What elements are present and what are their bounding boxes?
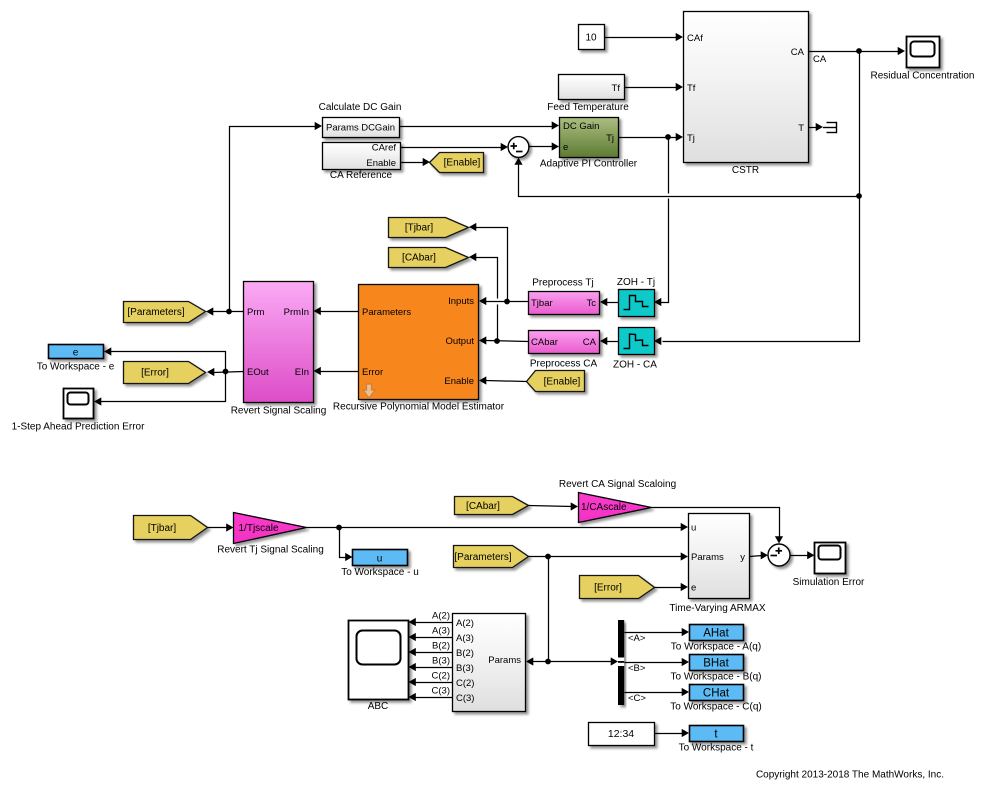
goto tag [CAbar] (upper) bbox=[389, 248, 469, 268]
from tag [CAbar] (lower) bbox=[455, 497, 529, 515]
block ZOH - CA bbox=[619, 328, 655, 355]
wire: CAref -> Sum1 bbox=[401, 147, 504, 149]
to-workspace block BHat bbox=[690, 655, 744, 671]
gain 1/CAscale (Revert CA Signal Scaloing) bbox=[579, 493, 652, 523]
goto tag [Parameters] (upper) bbox=[124, 302, 206, 323]
svg-text:B(3): B(3) bbox=[456, 663, 474, 674]
svg-text:[CAbar]: [CAbar] bbox=[402, 253, 436, 264]
svg-text:Prm: Prm bbox=[247, 307, 265, 318]
svg-text:Revert Signal Scaling: Revert Signal Scaling bbox=[231, 406, 327, 417]
svg-text:BHat: BHat bbox=[703, 658, 729, 670]
svg-text:Tf: Tf bbox=[612, 83, 621, 94]
svg-text:CA: CA bbox=[791, 47, 805, 58]
constant block "10" bbox=[579, 25, 605, 50]
svg-text:C(3): C(3) bbox=[432, 686, 450, 697]
svg-text:Output: Output bbox=[445, 336, 474, 347]
to-workspace block e bbox=[49, 345, 104, 359]
wire: CA vertical feedback down right side to ZOH - CA bbox=[663, 52, 860, 342]
svg-text:Tf: Tf bbox=[687, 83, 696, 94]
wire: bus selector <C> -> CHat bbox=[625, 692, 685, 694]
wire: Revert EOut -> [Error] goto with branches bbox=[214, 372, 244, 373]
svg-text:To Workspace - C(q): To Workspace - C(q) bbox=[670, 702, 762, 713]
svg-text:CA Reference: CA Reference bbox=[330, 170, 393, 181]
wire: ZOH - CA -> Preprocess CA bbox=[607, 341, 619, 343]
svg-text:B(2): B(2) bbox=[456, 648, 474, 659]
svg-text:Params: Params bbox=[326, 123, 359, 134]
block Preprocess Tj bbox=[529, 292, 600, 315]
svg-text:B(2): B(2) bbox=[432, 641, 450, 652]
bus selector bbox=[618, 620, 624, 705]
svg-text:1/Tjscale: 1/Tjscale bbox=[239, 523, 279, 534]
svg-text:Tc: Tc bbox=[587, 298, 597, 309]
svg-text:Enable: Enable bbox=[366, 158, 396, 169]
scope 1-Step Ahead Prediction Error bbox=[64, 389, 94, 419]
svg-text:[Enable]: [Enable] bbox=[444, 158, 481, 169]
sum block Sum2 bbox=[768, 544, 790, 566]
scope ABC bbox=[349, 621, 409, 700]
from tag [Parameters] (lower) bbox=[454, 546, 529, 568]
svg-text:e: e bbox=[691, 583, 696, 594]
from tag [Error] (lower) bbox=[580, 576, 655, 599]
svg-text:A(3): A(3) bbox=[432, 626, 450, 637]
svg-text:B(3): B(3) bbox=[432, 656, 450, 667]
svg-text:[CAbar]: [CAbar] bbox=[466, 501, 500, 512]
to-workspace block CHat bbox=[690, 685, 744, 701]
digital clock block 12:34 bbox=[589, 723, 655, 746]
subsystem CSTR bbox=[684, 12, 809, 163]
svg-text:T: T bbox=[798, 123, 804, 134]
svg-text:1-Step Ahead Prediction Error: 1-Step Ahead Prediction Error bbox=[12, 422, 146, 433]
svg-text:To Workspace - A(q): To Workspace - A(q) bbox=[671, 642, 761, 653]
svg-text:Calculate DC Gain: Calculate DC Gain bbox=[319, 102, 402, 113]
svg-text:To Workspace - e: To Workspace - e bbox=[37, 362, 115, 373]
svg-text:e: e bbox=[73, 348, 79, 359]
wire: Preprocess Tj -> Estimator Inputs, branch to [Tjbar] goto bbox=[486, 301, 529, 303]
svg-text:10: 10 bbox=[585, 33, 597, 44]
svg-text:CHat: CHat bbox=[703, 688, 730, 700]
block Recursive Polynomial Model Estimator bbox=[359, 285, 479, 400]
svg-text:Inputs: Inputs bbox=[448, 296, 474, 307]
wire: 10 -> CSTR CAf bbox=[605, 37, 679, 39]
gain 1/Tjscale (Revert Tj Signal Scaling) bbox=[234, 513, 307, 544]
svg-text:u: u bbox=[377, 554, 383, 565]
svg-text:CSTR: CSTR bbox=[732, 165, 759, 176]
svg-text:A(2): A(2) bbox=[456, 618, 474, 629]
wire: 1/CAscale -> Sum2 top input bbox=[652, 508, 780, 539]
svg-text:C(2): C(2) bbox=[456, 678, 474, 689]
scope Simulation Error bbox=[815, 543, 846, 574]
svg-text:DC Gain: DC Gain bbox=[563, 121, 599, 132]
svg-text:To Workspace - t: To Workspace - t bbox=[679, 743, 754, 754]
wire: [Tjbar] -> 1/Tjscale gain bbox=[208, 527, 229, 529]
svg-text:C(3): C(3) bbox=[456, 693, 474, 704]
svg-text:[Parameters]: [Parameters] bbox=[127, 307, 184, 318]
scope Residual Concentration bbox=[907, 37, 940, 68]
wire: ARMAX y -> Sum2 minus input bbox=[750, 556, 763, 557]
wire: ZOH - Tj -> Preprocess Tj bbox=[607, 302, 619, 304]
svg-text:AHat: AHat bbox=[703, 628, 729, 640]
wire: Adaptive PI Tj -> CSTR Tj (junction to ZOH-Tj) bbox=[619, 137, 679, 139]
svg-text:u: u bbox=[691, 523, 696, 534]
svg-text:[Enable]: [Enable] bbox=[544, 377, 581, 388]
from tag [Enable] (middle) bbox=[527, 371, 585, 392]
svg-text:Preprocess Tj: Preprocess Tj bbox=[532, 278, 594, 289]
svg-text:CA: CA bbox=[583, 337, 597, 348]
svg-text:Tj: Tj bbox=[606, 133, 614, 144]
wire: Sum1 -> Adaptive PI e bbox=[530, 146, 555, 148]
svg-text:[Tjbar]: [Tjbar] bbox=[148, 523, 177, 534]
svg-text:Tjbar: Tjbar bbox=[531, 298, 553, 309]
wire: Estimator Parameters -> Revert PrmIn bbox=[320, 311, 359, 313]
wire: CSTR CA -> Residual Concentration scope bbox=[809, 51, 901, 53]
wire: DCGain -> Adaptive PI DC Gain bbox=[400, 126, 555, 128]
svg-text:A(3): A(3) bbox=[456, 633, 474, 644]
svg-text:C(2): C(2) bbox=[432, 671, 450, 682]
subsystem Calculate DC Gain bbox=[323, 118, 400, 138]
svg-text:ZOH - CA: ZOH - CA bbox=[613, 360, 657, 371]
svg-text:Residual Concentration: Residual Concentration bbox=[871, 71, 975, 82]
svg-text:Simulation Error: Simulation Error bbox=[793, 577, 865, 588]
wire: bus selector <B> -> BHat bbox=[625, 662, 685, 664]
estimator down-arrow icon bbox=[363, 384, 375, 398]
wire: Enable -> Goto [Enable] bbox=[401, 162, 425, 164]
svg-text:ZOH - Tj: ZOH - Tj bbox=[617, 277, 655, 288]
wire: Preprocess CA -> Estimator Output, branch to [CAbar] goto bbox=[486, 341, 529, 342]
svg-text:Adaptive PI Controller: Adaptive PI Controller bbox=[540, 159, 638, 170]
wire: CSTR T -> terminator bbox=[809, 127, 817, 129]
goto tag [Error] (upper) bbox=[124, 362, 206, 384]
svg-text:Feed Temperature: Feed Temperature bbox=[547, 102, 629, 113]
svg-text:[Error]: [Error] bbox=[594, 583, 622, 594]
svg-text:<A>: <A> bbox=[628, 633, 646, 644]
svg-text:CAbar: CAbar bbox=[531, 337, 558, 348]
svg-text:CAref: CAref bbox=[372, 143, 397, 154]
to-workspace block t bbox=[690, 726, 744, 742]
svg-text:[Tjbar]: [Tjbar] bbox=[405, 223, 434, 234]
svg-text:PrmIn: PrmIn bbox=[284, 307, 309, 318]
svg-text:[Parameters]: [Parameters] bbox=[454, 552, 511, 563]
svg-text:Time-Varying ARMAX: Time-Varying ARMAX bbox=[669, 603, 765, 614]
wire: [Enable] -> Estimator Enable bbox=[486, 381, 527, 382]
wire: [Parameters] -> ARMAX Params, branch down to A B C display and bus selector bbox=[529, 556, 683, 558]
wire: [Error] -> ARMAX e bbox=[655, 587, 683, 589]
from tag [Tjbar] (lower) bbox=[134, 516, 208, 540]
goto tag [Enable] (upper) bbox=[430, 153, 484, 173]
wire: [CAbar] -> 1/CAscale gain bbox=[529, 506, 573, 507]
svg-text:Error: Error bbox=[362, 367, 383, 378]
svg-text:Parameters: Parameters bbox=[362, 307, 411, 318]
svg-text:Params: Params bbox=[691, 552, 724, 563]
wire: Estimator Error -> Revert EIn bbox=[320, 371, 359, 373]
wire: branch down to 1-Step Ahead Prediction Error scope bbox=[101, 372, 226, 402]
wire: Feed Temperature -> CSTR Tf bbox=[625, 87, 679, 89]
wire: branch up to To Workspace e bbox=[111, 352, 226, 372]
wires: params display -> ABC scope with signal labels bbox=[415, 622, 453, 624]
svg-text:EIn: EIn bbox=[295, 367, 309, 378]
svg-text:1/CAscale: 1/CAscale bbox=[581, 502, 627, 513]
svg-text:To Workspace - B(q): To Workspace - B(q) bbox=[671, 672, 762, 683]
svg-text:Revert CA Signal Scaloing: Revert CA Signal Scaloing bbox=[559, 479, 676, 490]
svg-text:EOut: EOut bbox=[247, 367, 269, 378]
wire: feedback to Sum1 minus input bbox=[519, 162, 860, 197]
to-workspace block u bbox=[353, 550, 408, 566]
svg-text:<C>: <C> bbox=[628, 693, 646, 704]
svg-text:A(2): A(2) bbox=[432, 611, 450, 622]
to-workspace block AHat bbox=[690, 625, 744, 641]
subsystem Time-Varying ARMAX bbox=[689, 514, 750, 599]
svg-text:Recursive Polynomial Model Est: Recursive Polynomial Model Estimator bbox=[333, 402, 505, 413]
svg-text:CAf: CAf bbox=[687, 33, 703, 44]
svg-text:ABC: ABC bbox=[368, 701, 389, 712]
svg-text:Enable: Enable bbox=[444, 376, 474, 387]
wire: Tj branch down to ZOH - Tj bbox=[668, 138, 670, 194]
svg-text:12:34: 12:34 bbox=[608, 728, 634, 740]
svg-text:y: y bbox=[740, 552, 745, 563]
subsystem ABC params display block bbox=[453, 614, 526, 712]
subsystem Feed Temperature bbox=[559, 75, 625, 100]
wire: branch left to ABC params display block bbox=[533, 661, 549, 663]
block Preprocess CA bbox=[529, 331, 600, 354]
wire: 1/Tjscale -> ARMAX u, branch to To Workspace u bbox=[307, 527, 683, 529]
svg-text:[Error]: [Error] bbox=[141, 368, 169, 379]
svg-text:Preprocess CA: Preprocess CA bbox=[530, 359, 598, 370]
wire: clock -> To Workspace t bbox=[655, 733, 685, 735]
subsystem CA Reference bbox=[323, 143, 401, 170]
svg-text:Tj: Tj bbox=[687, 133, 695, 144]
subsystem Revert Signal Scaling bbox=[244, 282, 314, 403]
terminator block bbox=[823, 122, 837, 133]
sum block Sum1 bbox=[508, 137, 529, 158]
svg-text:CA: CA bbox=[813, 54, 827, 65]
wire: bus selector <A> -> AHat bbox=[625, 632, 685, 634]
svg-text:To Workspace - u: To Workspace - u bbox=[341, 567, 419, 578]
svg-text:<B>: <B> bbox=[628, 663, 646, 674]
svg-text:Params: Params bbox=[488, 655, 521, 666]
wire: Sum2 -> Simulation Error scope bbox=[791, 555, 810, 557]
subsystem Adaptive PI Controller bbox=[560, 118, 619, 158]
svg-text:Revert Tj Signal Scaling: Revert Tj Signal Scaling bbox=[217, 545, 324, 556]
svg-text:DCGain: DCGain bbox=[361, 123, 395, 134]
wire: Revert Prm -> [Parameters] goto, branch up to Calculate DC Gain Params bbox=[213, 311, 244, 313]
svg-text:e: e bbox=[563, 142, 568, 153]
goto tag [Tjbar] (upper) bbox=[389, 218, 469, 238]
svg-text:Copyright 2013-2018 The MathWo: Copyright 2013-2018 The MathWorks, Inc. bbox=[756, 770, 944, 781]
block ZOH - Tj bbox=[619, 290, 655, 317]
